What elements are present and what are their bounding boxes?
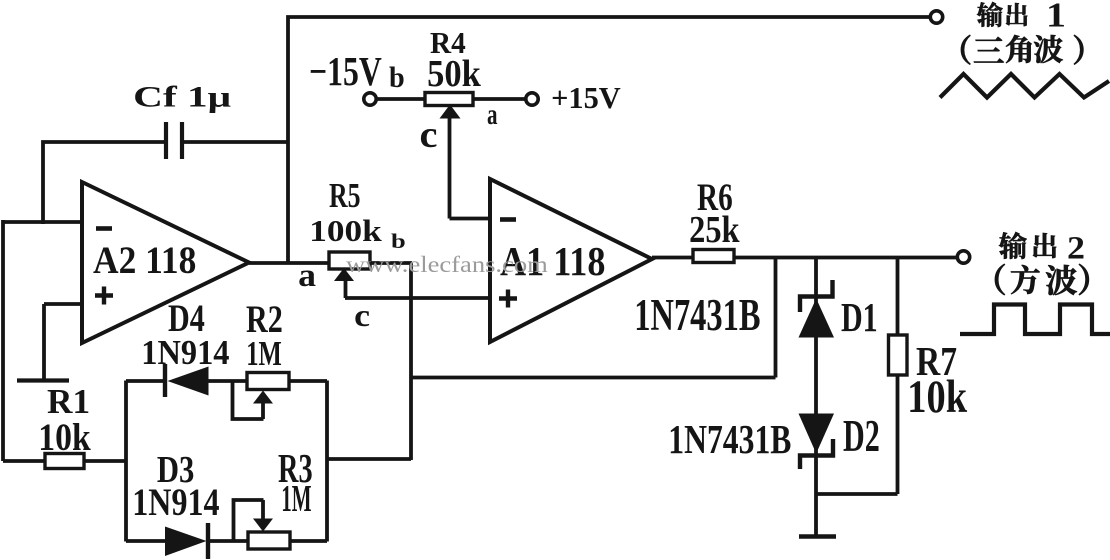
svg-text:www.elecfans.com: www.elecfans.com: [346, 252, 548, 278]
svg-text:25k: 25k: [689, 209, 740, 251]
svg-text:1N7431B: 1N7431B: [634, 290, 760, 340]
svg-text:b: b: [391, 229, 406, 253]
svg-text:a: a: [487, 99, 498, 131]
svg-text:c: c: [354, 298, 370, 333]
svg-text:R5: R5: [329, 176, 361, 215]
svg-text:c: c: [420, 114, 438, 156]
svg-text:50k: 50k: [427, 53, 481, 95]
svg-text:1M: 1M: [281, 478, 311, 520]
svg-text:1: 1: [1046, 0, 1066, 35]
svg-text:Cf 1μ: Cf 1μ: [133, 82, 231, 114]
svg-text:1N914: 1N914: [132, 481, 219, 524]
svg-text:a: a: [298, 258, 316, 294]
svg-text:1N7431B: 1N7431B: [668, 417, 791, 462]
svg-text:100k: 100k: [309, 214, 382, 248]
svg-text:1M: 1M: [246, 334, 282, 373]
svg-text:b: b: [389, 62, 405, 94]
svg-text:A2 118: A2 118: [93, 239, 196, 282]
svg-text:D2: D2: [843, 411, 880, 461]
svg-text:10k: 10k: [907, 372, 967, 423]
svg-text:D1: D1: [841, 295, 878, 340]
svg-text:+15V: +15V: [551, 80, 621, 115]
svg-text:1N914: 1N914: [141, 333, 229, 372]
svg-text:2: 2: [1067, 231, 1085, 267]
svg-text:10k: 10k: [38, 416, 91, 459]
svg-text:−15V: −15V: [309, 49, 382, 94]
